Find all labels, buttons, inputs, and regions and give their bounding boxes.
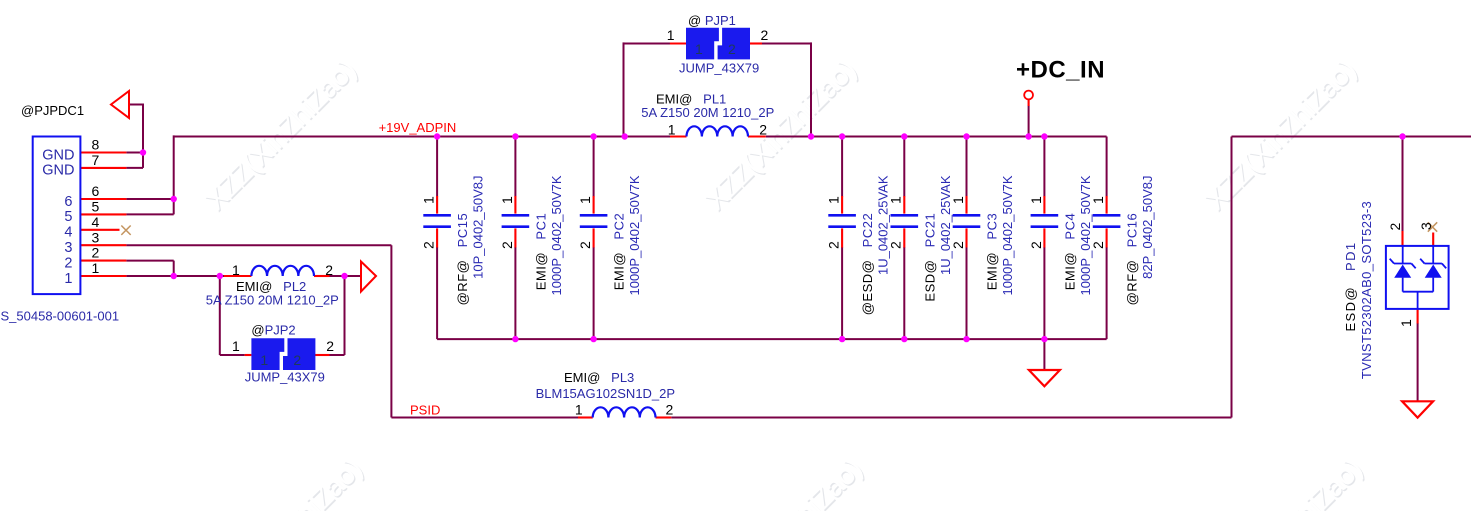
svg-text:GND: GND [42,163,74,179]
svg-text:1: 1 [888,196,904,204]
svg-text:5: 5 [64,209,72,225]
svg-text:2: 2 [888,241,904,249]
svg-text:2: 2 [666,401,674,417]
svg-text:EMI@ PL3: EMI@ PL3 [564,370,634,385]
svg-text:1: 1 [92,260,100,276]
svg-text:ESD@ PC21: ESD@ PC21 [922,213,937,302]
svg-text:1U_0402_25VAK: 1U_0402_25VAK [938,175,953,275]
svg-text:JUMP_43X79: JUMP_43X79 [245,369,325,384]
svg-text:6: 6 [64,194,72,210]
svg-text:@PJP2: @PJP2 [251,323,295,338]
svg-text:EMI@ PC2: EMI@ PC2 [612,213,627,290]
svg-text:1: 1 [575,401,583,417]
svg-text:4: 4 [92,214,100,230]
svg-text:ESD@ PD1: ESD@ PD1 [1343,241,1358,331]
svg-text:2: 2 [1028,241,1044,249]
svg-text:82P_0402_50V8J: 82P_0402_50V8J [1140,176,1155,279]
svg-text:1: 1 [826,196,842,204]
svg-text:3: 3 [64,240,72,256]
svg-text:1000P_0402_50V7K: 1000P_0402_50V7K [1078,175,1093,295]
svg-text:2: 2 [950,241,966,249]
svg-text:1: 1 [1090,196,1106,204]
svg-text:1: 1 [1028,196,1044,204]
svg-text:2: 2 [499,241,515,249]
svg-text:@ESD@ PC22: @ESD@ PC22 [860,213,875,315]
svg-text:5A Z150 20M 1210_2P: 5A Z150 20M 1210_2P [206,293,339,308]
svg-text:2: 2 [92,245,100,261]
svg-text:1: 1 [421,196,437,204]
svg-text:@RF@ PC15: @RF@ PC15 [455,213,470,306]
svg-text:8: 8 [92,137,100,153]
svg-text:4: 4 [64,225,72,241]
svg-text:2: 2 [325,262,333,278]
svg-text:1: 1 [667,27,675,43]
svg-text:7: 7 [92,152,100,168]
svg-text:1000P_0402_50V7K: 1000P_0402_50V7K [1000,175,1015,295]
svg-text:1: 1 [695,41,703,57]
svg-text:1: 1 [577,196,593,204]
svg-text:2: 2 [421,241,437,249]
svg-text:1: 1 [1398,319,1414,327]
svg-text:+19V_ADPIN: +19V_ADPIN [379,120,457,135]
svg-text:1: 1 [668,121,676,137]
svg-text:2: 2 [1090,241,1106,249]
svg-text:TVNST52302AB0_SOT523-3: TVNST52302AB0_SOT523-3 [1359,201,1374,379]
svg-text:+DC_IN: +DC_IN [1016,57,1105,84]
svg-text:1000P_0402_50V7K: 1000P_0402_50V7K [549,175,564,295]
svg-text:2: 2 [1387,223,1403,231]
svg-text:5A Z150 20M 1210_2P: 5A Z150 20M 1210_2P [641,105,774,120]
svg-text:5: 5 [92,199,100,215]
svg-text:1: 1 [232,262,240,278]
svg-text:@RF@ PC16: @RF@ PC16 [1125,213,1140,306]
svg-text:3: 3 [1418,222,1434,230]
svg-text:1: 1 [260,352,268,368]
svg-text:2: 2 [577,241,593,249]
svg-text:2: 2 [761,27,769,43]
svg-text:2: 2 [326,338,334,354]
svg-text:EMI@ PC1: EMI@ PC1 [533,213,548,290]
svg-text:6: 6 [92,183,100,199]
svg-text:1: 1 [950,196,966,204]
svg-text:2: 2 [64,255,72,271]
svg-text:10P_0402_50V8J: 10P_0402_50V8J [471,176,486,279]
svg-text:2: 2 [293,352,301,368]
svg-text:3: 3 [92,229,100,245]
svg-text:BLM15AG102SN1D_2P: BLM15AG102SN1D_2P [536,386,675,401]
svg-text:S_50458-00601-001: S_50458-00601-001 [1,309,120,324]
svg-text:PSID: PSID [410,403,440,418]
svg-text:EMI@ PC4: EMI@ PC4 [1062,213,1077,290]
svg-text:EMI@ PC3: EMI@ PC3 [985,213,1000,290]
svg-text:@PJPDC1: @PJPDC1 [21,103,84,118]
svg-text:1U_0402_25VAK: 1U_0402_25VAK [876,175,891,275]
svg-text:1: 1 [64,271,72,287]
svg-text:@ PJP1: @ PJP1 [688,13,736,28]
svg-text:GND: GND [42,147,74,163]
svg-text:2: 2 [826,241,842,249]
svg-text:1: 1 [499,196,515,204]
svg-text:JUMP_43X79: JUMP_43X79 [679,61,759,76]
svg-text:1: 1 [232,338,240,354]
svg-text:2: 2 [759,121,767,137]
svg-text:2: 2 [728,41,736,57]
svg-text:1000P_0402_50V7K: 1000P_0402_50V7K [627,175,642,295]
